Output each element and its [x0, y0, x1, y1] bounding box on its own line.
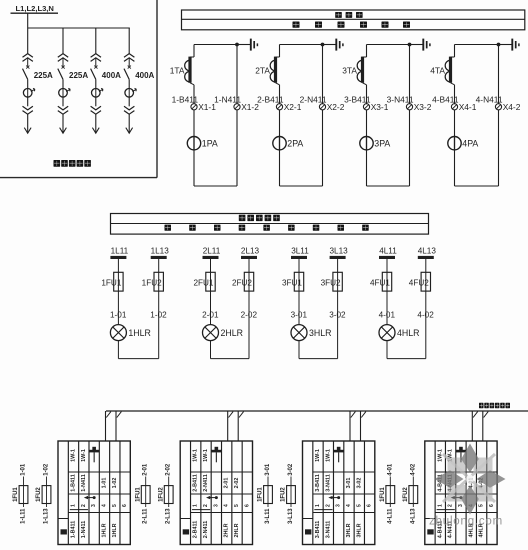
wire right leg down 1 [158, 291, 160, 359]
withdrawable contact (chevrons down) branch 4 [124, 106, 134, 114]
svg-text:1-02: 1-02 [112, 478, 118, 489]
junction slash A table 1 [106, 412, 111, 418]
svg-text:1FU1: 1FU1 [135, 487, 141, 502]
junction slash B table 1 [117, 412, 122, 418]
terminal group underline table 1 [70, 509, 88, 511]
header text row2 (Chinese: switch closed indication) [165, 225, 172, 231]
row line table 4 r3 [435, 512, 497, 514]
terminal column divider 1.2 [78, 441, 80, 545]
wire left leg lower 1 [193, 85, 195, 186]
current transformer 2TA [276, 56, 280, 58]
legend black square table 1 [61, 529, 67, 534]
fuse 3FU1 [294, 272, 303, 291]
svg-text:X3-1: X3-1 [371, 102, 389, 112]
ammeter 1PA [187, 137, 200, 150]
row line table 1 r3 [68, 512, 130, 514]
wire left leg lower 2 [279, 85, 281, 186]
svg-text:1-01: 1-01 [101, 478, 107, 489]
svg-text:X4-2: X4-2 [503, 102, 521, 112]
jumper arrow table 1 [86, 497, 94, 499]
ammeter 2PA [273, 137, 286, 150]
svg-text:3-N411: 3-N411 [387, 95, 414, 105]
legend black square table 3 [305, 529, 311, 534]
svg-text:3-02: 3-02 [356, 478, 362, 489]
wire lamp 3 leg [298, 259, 300, 272]
junction slash B table 4 [484, 412, 489, 418]
wire fuse group 4-02 [412, 477, 414, 508]
svg-text:3: 3 [336, 504, 342, 507]
svg-text:2-01: 2-01 [224, 478, 230, 489]
svg-text:5: 5 [356, 504, 362, 507]
svg-text:1FU1: 1FU1 [380, 487, 386, 502]
current transformer 4TA [451, 56, 455, 58]
wire CT loop bottom 3 [367, 185, 410, 187]
svg-text:1-02: 1-02 [44, 463, 50, 476]
fuse 1FU2 (rotated group) [42, 486, 51, 504]
wire right leg down 4 [425, 291, 427, 359]
frame around primary scheme [0, 177, 157, 179]
outgoing arrow branch 4 [126, 128, 133, 134]
svg-text:1-N411: 1-N411 [81, 474, 87, 491]
fuse 4FU2 [421, 272, 430, 291]
svg-text:5: 5 [479, 504, 485, 507]
wire branch 1 outgoing [27, 114, 29, 132]
wire branch 4 to breaker [128, 79, 130, 88]
header box current measurement [182, 10, 525, 30]
outgoing arrow branch 1 [24, 128, 31, 134]
wire branch 1 upper [27, 28, 29, 53]
svg-text:3: 3 [213, 504, 219, 507]
svg-text:4-01: 4-01 [387, 463, 393, 476]
svg-text:2-L13: 2-L13 [166, 508, 172, 524]
terminal X1-2 [234, 104, 240, 110]
svg-text:2-N411: 2-N411 [203, 521, 209, 538]
wire right leg 2 [322, 45, 324, 187]
wire CT loop top 1 [194, 44, 237, 46]
svg-text:1HLR: 1HLR [112, 523, 118, 537]
svg-text:3-L13: 3-L13 [288, 508, 294, 524]
lamp 1HLR [110, 325, 126, 341]
fuse 1FU1 (rotated group) [19, 486, 28, 504]
junction slash A table 3 [351, 412, 356, 418]
svg-text:1: 1 [315, 504, 321, 507]
switch QK1 fixed contact x-mark [26, 66, 29, 69]
symbol to-bus arrow table 2 [215, 447, 219, 450]
svg-text:4: 4 [346, 504, 352, 507]
fuse 1FU2 (rotated group) [409, 486, 418, 504]
wire incoming drop [27, 13, 29, 28]
svg-text:2-02: 2-02 [234, 478, 240, 489]
terminal block table X1 outline [58, 441, 130, 545]
node junction 2 [321, 43, 325, 47]
row line table 4 r1 [435, 471, 497, 473]
wire left leg upper 2 [279, 45, 281, 58]
svg-text:3: 3 [458, 504, 464, 507]
wire lamp 2 leg [248, 259, 250, 272]
svg-text:2FU2: 2FU2 [232, 278, 252, 287]
wire branch 4 below breaker [128, 97, 130, 106]
svg-text:1-01: 1-01 [21, 463, 27, 476]
wire ground stub 2 [323, 44, 337, 46]
node junction 3 [408, 43, 412, 47]
current transformer 3TA [363, 56, 367, 58]
wire right leg 1 [236, 45, 238, 187]
ground symbol 4 [511, 39, 513, 51]
svg-text:3-N411: 3-N411 [325, 474, 331, 491]
terminal X1-1 [191, 104, 197, 110]
svg-text:2-01: 2-01 [143, 463, 149, 476]
svg-text:4-L13: 4-L13 [410, 508, 416, 524]
lamp 4HLR [379, 325, 395, 341]
disconnect contact (chevrons) branch 3 [91, 54, 101, 62]
wire ground stub 4 [499, 44, 513, 46]
svg-text:1W-1: 1W-1 [315, 449, 321, 462]
caption primary scheme (Chinese) [54, 160, 61, 167]
wire fuse1 to lamp 1 [117, 291, 119, 325]
svg-text:X1-1: X1-1 [198, 102, 216, 112]
wire branch 2 upper [62, 28, 64, 53]
terminal X4-2 [495, 104, 501, 110]
terminal column divider 2.5 [231, 441, 233, 545]
svg-text:4PA: 4PA [462, 138, 478, 148]
svg-text:1TA: 1TA [170, 66, 185, 76]
fuse 2FU1 [206, 272, 215, 291]
jumper arrow table 2 [209, 497, 217, 499]
symbol to-bus arrow table 3 [337, 447, 341, 450]
wire branch 4 to switch [128, 58, 130, 66]
watermark logo (decorative) [435, 444, 506, 515]
ammeter 3PA [360, 137, 373, 150]
svg-text:225A: 225A [34, 71, 53, 80]
legend black square table 2 [183, 529, 189, 534]
wire fuse group 2-02 [168, 477, 170, 508]
terminal column divider 4.6 [486, 441, 488, 545]
outgoing arrow branch 2 [60, 128, 67, 134]
withdrawable contact (chevrons down) branch 1 [23, 106, 33, 114]
wire right leg down 3 [337, 291, 339, 359]
wire fuse group 4-01 [389, 477, 391, 508]
junction slash A table 2 [229, 412, 234, 418]
wire branch 1 to switch [27, 58, 29, 66]
switch QK1 blade [23, 69, 28, 80]
wire lamp 4 leg [386, 259, 388, 272]
svg-text:3HLR: 3HLR [309, 328, 332, 338]
switch QK3 fixed contact x-mark [94, 66, 97, 69]
wire branch 1 below breaker [27, 97, 29, 106]
fuse 1FU1 [114, 272, 123, 291]
svg-text:4L11: 4L11 [379, 246, 397, 255]
svg-text:2TA: 2TA [255, 66, 270, 76]
svg-text:1-L11: 1-L11 [21, 508, 27, 524]
switch QK2 blade [58, 69, 63, 80]
svg-text:1: 1 [70, 504, 76, 507]
svg-text:L1,L2,L3,N: L1,L2,L3,N [16, 4, 54, 13]
disconnect contact (chevrons) branch 1 [23, 54, 33, 62]
wire branch 1 to breaker [27, 79, 29, 88]
svg-text:2-02: 2-02 [166, 463, 172, 476]
row line table 4 r2 [435, 493, 497, 495]
svg-text:1FU2: 1FU2 [403, 487, 409, 502]
svg-text:2HLR: 2HLR [224, 523, 230, 537]
terminal column divider 3.2 [322, 441, 324, 545]
svg-text:4-L11: 4-L11 [387, 508, 393, 524]
svg-text:2PA: 2PA [287, 138, 303, 148]
svg-text:3FU2: 3FU2 [321, 278, 341, 287]
svg-text:1HLR: 1HLR [101, 523, 107, 537]
wire ground stub 3 [410, 44, 424, 46]
fuse 1FU2 [154, 272, 163, 291]
row line table 2 r2 [191, 493, 253, 495]
svg-text:X2-2: X2-2 [327, 102, 345, 112]
terminal column divider 4.5 [475, 441, 477, 545]
wire lamp 1 bottom left [117, 341, 119, 359]
node junction 1 [235, 43, 239, 47]
jumper arrow table 4 [453, 497, 461, 499]
svg-text:1: 1 [193, 504, 199, 507]
terminal column divider 4.2 [444, 441, 446, 545]
terminal column divider 2.1 [190, 441, 192, 545]
wire left leg lower 4 [454, 85, 456, 186]
terminal column divider 1.3 [88, 441, 90, 545]
svg-text:6: 6 [489, 504, 495, 507]
wire riser B table 2 [237, 411, 239, 441]
terminal column divider 4.1 [434, 441, 436, 545]
svg-text:zhulong.com: zhulong.com [429, 516, 503, 528]
wire CT loop top 4 [455, 44, 499, 46]
wire riser B table 1 [115, 411, 117, 441]
svg-text:2-L11: 2-L11 [143, 508, 149, 524]
junction slash B table 3 [361, 412, 366, 418]
terminal block table X4 outline [425, 441, 497, 545]
wire branch 3 to breaker [95, 79, 97, 88]
svg-text:3PA: 3PA [374, 138, 390, 148]
switch QK4 fixed contact x-mark [128, 66, 131, 69]
svg-text:1W-1: 1W-1 [203, 449, 209, 462]
ground symbol 2 [335, 39, 337, 51]
svg-text:4FU2: 4FU2 [409, 278, 429, 287]
wire right leg 4 [498, 45, 500, 187]
terminal column divider 1.1 [67, 441, 69, 545]
wire branch 4 outgoing [128, 114, 130, 132]
lamp 3HLR [291, 325, 307, 341]
terminal column divider 2.6 [241, 441, 243, 545]
terminal group underline table 3 [314, 509, 332, 511]
wire left leg lower 3 [366, 85, 368, 186]
wire fuse1 to lamp 3 [298, 291, 300, 325]
terminal column divider 3.5 [353, 441, 355, 545]
terminal column divider 4.4 [465, 441, 467, 545]
svg-text:3-02: 3-02 [288, 463, 294, 476]
svg-text:3-01: 3-01 [346, 478, 352, 489]
terminal block table X3 outline [303, 441, 375, 545]
svg-text:1W-1: 1W-1 [437, 449, 443, 462]
svg-text:4-N411: 4-N411 [476, 95, 503, 105]
switch QK2 fixed contact x-mark [62, 66, 65, 69]
wire riser A table 2 [227, 411, 229, 441]
svg-text:1: 1 [437, 504, 443, 507]
label cell divider table 2 [180, 518, 190, 520]
svg-text:2: 2 [203, 504, 209, 507]
terminal group underline table 2 [192, 509, 210, 511]
wire fuse group 1-01 [23, 477, 25, 508]
ammeter 4PA [448, 137, 461, 150]
terminal column divider 3.1 [312, 441, 314, 545]
svg-text:6: 6 [122, 504, 128, 507]
row line table 3 r3 [313, 512, 375, 514]
terminal column divider 1.5 [109, 441, 111, 545]
wire lamp 2 leg [210, 259, 212, 272]
svg-text:2-N411: 2-N411 [203, 474, 209, 491]
row line table 2 r1 [191, 471, 253, 473]
svg-text:1PA: 1PA [202, 138, 218, 148]
disconnect contact (chevrons) branch 4 [124, 54, 134, 62]
withdrawable contact (chevrons down) branch 2 [58, 106, 68, 114]
svg-text:X2-1: X2-1 [284, 102, 302, 112]
svg-text:2: 2 [325, 504, 331, 507]
row line table 1 r2 [68, 493, 130, 495]
svg-text:5: 5 [112, 504, 118, 507]
wire fuse group 1-02 [46, 477, 48, 508]
wire fuse group 2-01 [145, 477, 147, 508]
terminal block table X2 outline [180, 441, 252, 545]
symbol to-bus arrow table 4 [459, 447, 463, 450]
header text row1 (Chinese: terminal strip) [335, 12, 342, 18]
svg-text:1L13: 1L13 [151, 246, 170, 255]
svg-text:3TA: 3TA [342, 66, 357, 76]
wire riser A table 3 [349, 411, 351, 441]
breaker QF4 (circle with trip flag) [125, 89, 134, 98]
breaker QF2 (circle with trip flag) [59, 89, 68, 98]
symbol to-bus arrow table 1 [92, 447, 96, 450]
disconnect contact (chevrons) branch 2 [58, 54, 68, 62]
wire left leg upper 3 [366, 45, 368, 58]
svg-text:3HLR: 3HLR [346, 523, 352, 537]
svg-text:2-B411: 2-B411 [257, 95, 284, 105]
wire left leg upper 1 [193, 45, 195, 58]
wire fuse group 3-01 [267, 477, 269, 508]
svg-text:400A: 400A [135, 71, 154, 80]
svg-text:1FU2: 1FU2 [142, 278, 162, 287]
svg-text:4FU1: 4FU1 [370, 278, 390, 287]
wire lamp 1 leg [158, 259, 160, 272]
svg-text:1FU1: 1FU1 [13, 487, 19, 502]
svg-text:6: 6 [244, 504, 250, 507]
svg-text:2FU1: 2FU1 [193, 278, 213, 287]
wire fuse1 to lamp 4 [386, 291, 388, 325]
svg-text:2L13: 2L13 [241, 246, 260, 255]
terminal column divider 2.4 [221, 441, 223, 545]
svg-text:3-B411: 3-B411 [315, 521, 321, 538]
fuse 4FU1 [382, 272, 391, 291]
wire lamp 2 bottom left [210, 341, 212, 359]
wire riser A table 1 [105, 411, 107, 441]
wire fuse1 to lamp 2 [210, 291, 212, 325]
svg-text:1-N411: 1-N411 [214, 95, 241, 105]
fuse 1FU2 (rotated group) [287, 486, 296, 504]
wire CT loop bottom 4 [455, 185, 499, 187]
svg-text:225A: 225A [69, 71, 88, 80]
svg-text:X4-1: X4-1 [459, 102, 477, 112]
withdrawable contact (chevrons down) branch 3 [91, 106, 101, 114]
svg-text:1FU2: 1FU2 [158, 487, 164, 502]
wire branch 2 below breaker [62, 97, 64, 106]
wire branch 3 outgoing [95, 114, 97, 132]
wire lamp loop bottom 2 [211, 358, 250, 360]
svg-text:2-B411: 2-B411 [193, 474, 199, 491]
wire lamp loop bottom 1 [118, 358, 158, 360]
wire lamp 4 bottom left [386, 341, 388, 359]
switch QK3 blade [91, 69, 96, 80]
svg-text:1-B411: 1-B411 [70, 521, 76, 538]
wire branch 2 outgoing [62, 114, 64, 132]
wire riser B table 3 [360, 411, 362, 441]
fuse 1FU1 (rotated group) [264, 486, 273, 504]
wire branch 2 to switch [62, 58, 64, 66]
fuse 2FU2 [244, 272, 253, 291]
wire CT loop top 3 [367, 44, 410, 46]
wire outgoing bus to main distribution box [106, 410, 528, 412]
header text row2 (Chinese: current measuring circuit) [293, 22, 300, 28]
header box indicator lamps [111, 214, 429, 235]
lamp 2HLR [203, 325, 219, 341]
svg-text:4-02: 4-02 [410, 463, 416, 476]
wire CT loop bottom 2 [280, 185, 323, 187]
svg-text:4-B411: 4-B411 [432, 95, 459, 105]
terminal X2-1 [276, 104, 282, 110]
svg-text:1-B411: 1-B411 [70, 474, 76, 491]
terminal X3-2 [406, 104, 412, 110]
svg-text:1FU2: 1FU2 [281, 487, 287, 502]
svg-text:1FU2: 1FU2 [36, 487, 42, 502]
wire right leg down 2 [248, 291, 250, 359]
svg-text:1L11: 1L11 [111, 246, 129, 255]
jumper arrow table 3 [331, 497, 339, 499]
junction slash A table 4 [473, 412, 478, 418]
svg-text:2: 2 [81, 504, 87, 507]
wire ground stub 1 [237, 44, 251, 46]
label cell divider table 3 [303, 518, 313, 520]
svg-text:2-N411: 2-N411 [300, 95, 327, 105]
terminal column divider 4.3 [455, 441, 457, 545]
wire lamp 3 bottom left [298, 341, 300, 359]
wire branch 3 upper [95, 28, 97, 53]
wire main bus [28, 27, 130, 29]
wire lamp 3 leg [337, 259, 339, 272]
terminal column divider 1.6 [119, 441, 121, 545]
svg-text:3-01: 3-01 [265, 463, 271, 476]
svg-text:3L13: 3L13 [329, 246, 348, 255]
ground symbol 3 [422, 39, 424, 51]
svg-text:2HLR: 2HLR [221, 328, 244, 338]
svg-text:4: 4 [101, 504, 107, 507]
svg-text:6: 6 [367, 504, 373, 507]
terminal X3-1 [363, 104, 369, 110]
svg-text:5: 5 [234, 504, 240, 507]
wire CT loop top 2 [280, 44, 323, 46]
wire riser A table 4 [471, 411, 473, 441]
terminal column divider 3.6 [363, 441, 365, 545]
row line table 2 r3 [191, 512, 253, 514]
svg-text:2HLR: 2HLR [234, 523, 240, 537]
row line table 1 r1 [68, 471, 130, 473]
svg-text:3-B411: 3-B411 [315, 474, 321, 491]
svg-text:2L11: 2L11 [203, 246, 221, 255]
breaker QF3 (circle with trip flag) [92, 89, 101, 98]
svg-text:4TA: 4TA [430, 66, 445, 76]
wire riser B table 4 [482, 411, 484, 441]
svg-text:4HLR: 4HLR [397, 328, 420, 338]
svg-text:4: 4 [224, 504, 230, 507]
